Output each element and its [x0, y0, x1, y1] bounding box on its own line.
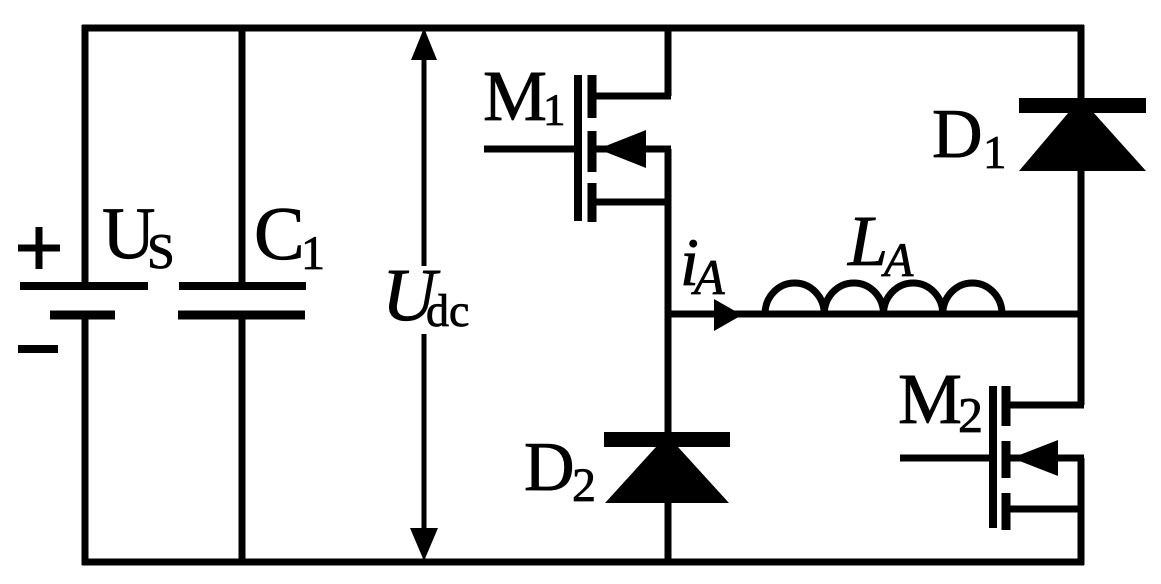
M1 channel segment bottom	[588, 183, 597, 222]
wire: M1 drain vertical from top rail	[665, 25, 672, 96]
D2 anode triangle	[605, 447, 729, 503]
D1 anode triangle	[1019, 112, 1146, 171]
wire: top rail	[82, 25, 1084, 32]
iA arrow on phase wire	[714, 299, 742, 331]
wire: D1 cathode vertical from top rail	[1078, 25, 1085, 100]
M1 gate lead	[484, 146, 575, 153]
minus sign	[18, 345, 58, 353]
inductor LA winding	[765, 283, 1002, 314]
wire: D2 anode vertical down to bottom rail	[665, 503, 672, 565]
wire: left branch lower segment	[82, 315, 89, 565]
wire: D1 anode vertical down to M2 drain	[1078, 171, 1085, 405]
M2 body arrow	[1012, 440, 1058, 476]
label US	[104, 210, 172, 269]
M2 gate lead	[900, 455, 990, 462]
mosfet M1	[484, 75, 671, 222]
wire: capacitor branch lower segment	[239, 315, 246, 565]
battery US negative plate	[50, 311, 115, 320]
plus sign	[18, 227, 60, 269]
D2 cathode bar	[604, 432, 730, 447]
diode D2	[604, 432, 730, 503]
M1 body stub	[592, 146, 671, 153]
M1 source stub	[592, 199, 671, 206]
mosfet M2	[900, 386, 1084, 530]
D1 cathode bar	[1019, 98, 1146, 113]
diode D1	[1019, 98, 1146, 171]
label iA	[684, 240, 725, 294]
capacitor C1 top plate	[179, 282, 306, 290]
M2 source stub	[1006, 506, 1084, 513]
wire: phase horizontal	[668, 311, 1081, 318]
wire: left branch upper segment	[82, 25, 89, 286]
M1 body arrow	[598, 130, 646, 168]
label C1	[257, 209, 322, 269]
M2 channel segment top	[1002, 386, 1011, 426]
Udc measurement arrow line lower	[422, 334, 427, 540]
label M1	[485, 73, 563, 125]
M2 gate bar	[989, 386, 997, 528]
M1 gate bar	[574, 75, 582, 221]
M2 channel segment bottom	[1002, 493, 1011, 530]
Udc measurement arrow line upper	[422, 50, 427, 266]
wire: M1 source vertical down to D2	[665, 149, 672, 434]
capacitor C1 bottom plate	[178, 311, 305, 320]
label M2	[900, 376, 980, 432]
M2 drain stub	[1006, 402, 1084, 409]
label D1	[934, 111, 1004, 168]
battery US positive plate	[20, 282, 148, 290]
M1 channel segment middle	[588, 131, 597, 172]
Udc arrowhead bottom	[410, 528, 438, 561]
label D2	[526, 444, 593, 501]
wire: bottom rail	[82, 559, 1084, 566]
Udc arrowhead top	[411, 28, 437, 60]
M2 channel segment middle	[1002, 441, 1011, 478]
M1 channel segment top	[588, 75, 597, 118]
label Udc	[389, 271, 468, 327]
M2 body stub	[1006, 455, 1084, 462]
M1 drain stub	[592, 93, 671, 100]
wire: capacitor branch upper segment	[239, 25, 246, 286]
label LA	[847, 218, 913, 276]
wire: M2 source vertical down to bottom rail	[1078, 458, 1085, 565]
